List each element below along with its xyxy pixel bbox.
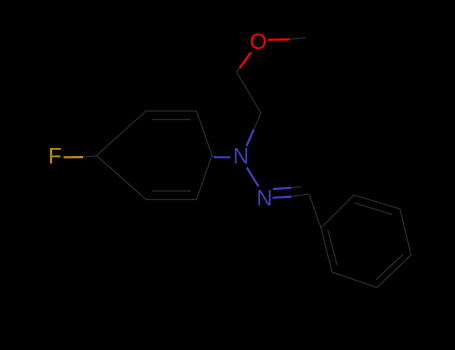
wire: inner double bond BL-L (right ring) bbox=[328, 230, 337, 265]
svg-text:N: N bbox=[257, 185, 273, 210]
wire: bond V2-O red half bbox=[240, 53, 251, 69]
wire: inner double bond TL-TR (top) bbox=[152, 119, 191, 121]
wire: inner double bond T-TR (right ring) bbox=[355, 203, 392, 215]
node: fluorophenyl ring outline bbox=[97, 111, 213, 200]
wire: bond O-CH3 carbon half ghost bbox=[290, 38, 306, 40]
svg-text:F: F bbox=[48, 144, 61, 169]
wire: bond C3-phenyl ghost bbox=[309, 194, 321, 228]
wire: bond F-C1 (orange half) bbox=[64, 156, 84, 158]
svg-text:N: N bbox=[233, 144, 249, 169]
wire: double bond N2=C3 main line blue half bbox=[273, 197, 292, 198]
wire: double bond N2=C3 main line carbon half ghost bbox=[291, 194, 309, 197]
wire: bond ring-N1 (carbon half, ghost) bbox=[212, 156, 215, 158]
wire: bond V2-O carbon half ghost bbox=[237, 68, 240, 72]
wire: inner double bond R-B (right ring) bbox=[376, 255, 403, 280]
wire: bond ring-N1 (blue half) bbox=[214, 156, 231, 158]
wire: bond V1-V2 ghost bbox=[237, 72, 262, 113]
wire: double bond N2=C3 offset line carbon half ghost bbox=[291, 187, 301, 188]
wire: bond F-C1 (carbon half, ghost) bbox=[83, 156, 97, 157]
node: phenyl ring outline bbox=[321, 195, 411, 288]
wire: double bond N2=C3 offset line blue half bbox=[273, 188, 292, 189]
wire: bond O-CH3 red half bbox=[268, 38, 290, 41]
wire: inner double bond BR-BL (bottom) bbox=[152, 190, 191, 192]
wire: bond N1-C(V1) carbon half ghost bbox=[254, 113, 261, 130]
svg-text:O: O bbox=[250, 29, 267, 54]
wire: bond N1-C(V1) blue half bbox=[247, 130, 254, 147]
wire: bond N1-N2 all blue bbox=[247, 168, 259, 187]
